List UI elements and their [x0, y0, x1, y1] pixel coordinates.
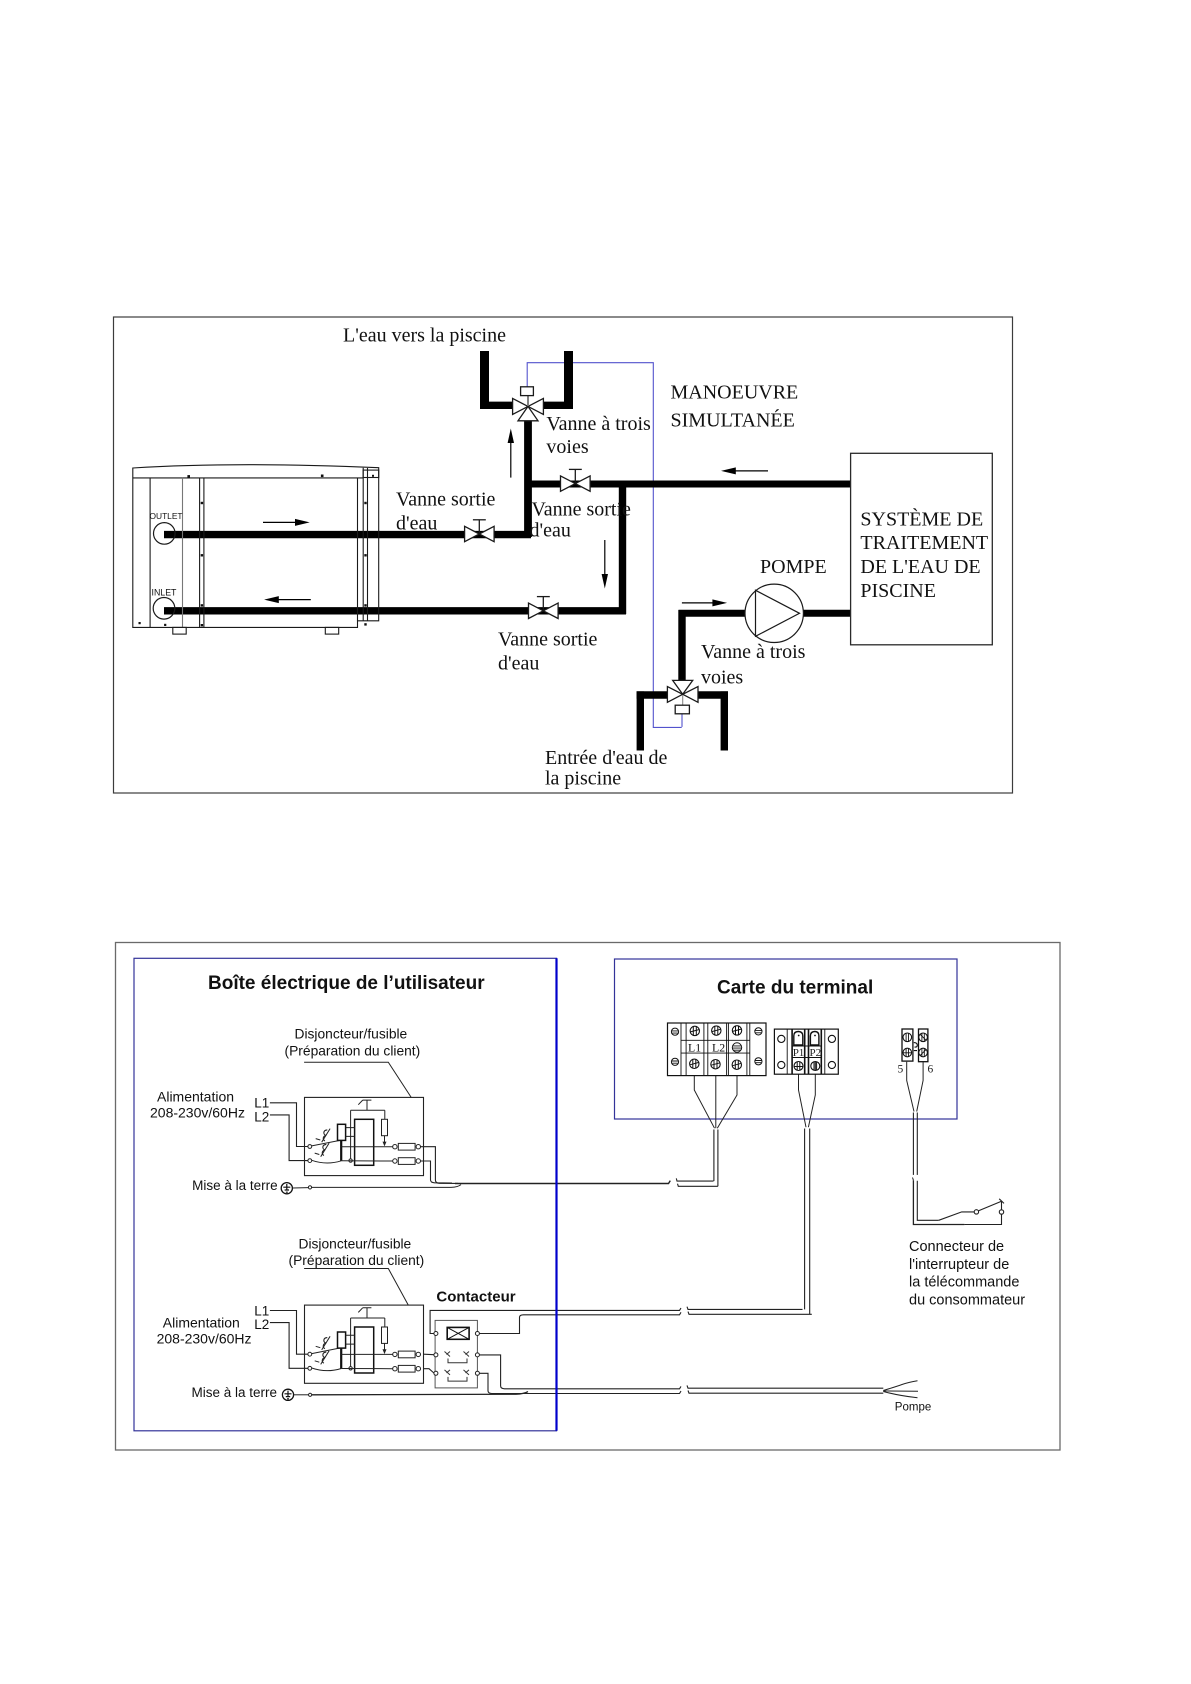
svg-text:Pompe: Pompe	[895, 1401, 931, 1413]
converging wires from TB1	[694, 1069, 714, 1128]
wire L2 to CB2	[270, 1323, 308, 1369]
svg-text:Alimentation: Alimentation	[163, 1315, 240, 1331]
svg-text:L1: L1	[254, 1303, 269, 1318]
control wire (blue) linking both three-way valves	[527, 363, 682, 728]
svg-text:MANOEUVRE: MANOEUVRE	[671, 382, 799, 404]
svg-text:Disjoncteur/fusible: Disjoncteur/fusible	[299, 1236, 412, 1251]
wire: pump inlet pipe	[679, 610, 747, 617]
ground wire long (lower, to pump cable)	[312, 1392, 528, 1395]
wire: pool inlet right downpipe	[721, 691, 728, 750]
leader line to CB1	[304, 1062, 411, 1097]
ground symbol (lower)	[282, 1389, 293, 1400]
wire: OUTLET pipe	[164, 531, 531, 538]
supply cable 1 to terminal card	[455, 1181, 670, 1184]
terminal card (blue frame)	[615, 959, 958, 1119]
coil wire left riser	[430, 1310, 524, 1333]
treatment system box	[851, 453, 993, 645]
valve (inlet) at 543,610.8	[529, 597, 559, 619]
heat pump unit body	[133, 465, 379, 628]
user electric box right edge (bright blue)	[555, 958, 557, 1431]
converging wires from TB2	[799, 1072, 807, 1127]
svg-text:POMPE: POMPE	[760, 556, 827, 578]
wire: vertical pipe under three-way valve V1	[524, 412, 532, 537]
svg-text:L2: L2	[254, 1109, 269, 1124]
riser pair up to terminal block TB1	[713, 1130, 715, 1182]
svg-text:L1: L1	[688, 1040, 701, 1054]
splice pair to card terminals	[676, 1178, 713, 1181]
svg-text:du consommateur: du consommateur	[909, 1293, 1025, 1309]
wire: pool inlet right arm	[697, 691, 728, 698]
ground wire long (upper)	[312, 1185, 461, 1188]
svg-text:Alimentation: Alimentation	[157, 1088, 234, 1104]
flow arrow left (inlet)	[264, 596, 311, 603]
svg-text:P1: P1	[793, 1047, 805, 1059]
CB1 output wire B	[421, 1161, 453, 1183]
svg-text:L'eau vers la piscine: L'eau vers la piscine	[343, 324, 506, 346]
svg-text:INLET: INLET	[152, 588, 178, 598]
pump rotor triangle	[756, 590, 800, 636]
remote switch cable pair down	[912, 1113, 914, 1175]
ground symbol (upper)	[281, 1183, 292, 1194]
CB1 output wire A	[421, 1147, 459, 1184]
port OUTLET circle	[154, 523, 176, 545]
contactor output wire 1	[479, 1355, 516, 1389]
frame top diagram	[114, 317, 1013, 793]
svg-text:Mise à la terre: Mise à la terre	[192, 1178, 278, 1193]
svg-text:Vanne sortie: Vanne sortie	[498, 629, 598, 651]
wire: INLET pipe	[164, 607, 626, 614]
svg-text:d'eau: d'eau	[530, 520, 571, 542]
wire: pool outlet left riser pipe	[480, 351, 489, 405]
svg-text:Vanne à trois: Vanne à trois	[546, 413, 651, 435]
heat pump screws	[139, 475, 375, 627]
spade contacts	[794, 1032, 803, 1046]
svg-text:Vanne à trois: Vanne à trois	[701, 641, 806, 663]
svg-text:Vanne sortie: Vanne sortie	[532, 499, 632, 521]
pump circle	[745, 584, 803, 642]
flow arrow down (x=605)	[602, 540, 608, 589]
wire CB2 fuse1 to contactor	[424, 1353, 434, 1356]
svg-text:Contacteur: Contacteur	[436, 1288, 515, 1305]
svg-text:5: 5	[898, 1064, 904, 1076]
circuit breaker CB2	[305, 1305, 424, 1383]
svg-text:(Préparation du client): (Préparation du client)	[285, 1043, 421, 1058]
svg-text:6: 6	[928, 1064, 934, 1076]
ground wire node (upper)	[293, 1187, 309, 1189]
three-way valve V2 (bottom)	[667, 680, 698, 727]
svg-text:Mise à la terre: Mise à la terre	[192, 1385, 278, 1400]
flow arrow left (to system pipe)	[721, 467, 768, 474]
svg-text:TRAITEMENT: TRAITEMENT	[860, 532, 988, 554]
svg-text:P2: P2	[810, 1047, 822, 1059]
wire: vertical pipe x=622	[619, 481, 626, 614]
svg-text:L1: L1	[254, 1096, 269, 1111]
svg-text:DE L'EAU DE: DE L'EAU DE	[860, 556, 980, 578]
valve (to system) at 575,483.6	[561, 469, 591, 491]
svg-text:OUTLET: OUTLET	[150, 511, 183, 521]
contactor terminals	[434, 1332, 480, 1376]
wire: pool inlet left arm	[637, 691, 669, 698]
remote switch symbol	[939, 1199, 1004, 1225]
contactor box	[435, 1320, 477, 1388]
ground wire node (lower)	[294, 1394, 309, 1396]
bottom screws	[794, 1062, 803, 1071]
flow arrow right (outlet)	[263, 519, 310, 526]
wire: pump outlet pipe	[802, 610, 850, 617]
converging wires from TB3	[907, 1062, 914, 1112]
contactor main contact row 1	[445, 1352, 470, 1363]
wire L1 to CB2	[270, 1311, 308, 1355]
heat pump feet	[173, 627, 186, 634]
contactor coil	[447, 1327, 469, 1339]
svg-text:la piscine: la piscine	[545, 768, 621, 790]
svg-text:208-230v/60Hz: 208-230v/60Hz	[157, 1331, 252, 1347]
wire: pool outlet left bottom arm	[480, 402, 514, 409]
svg-text:d'eau: d'eau	[396, 512, 437, 534]
svg-text:L2: L2	[254, 1317, 269, 1332]
pump cable fan-out	[883, 1381, 917, 1391]
control cable pair to P1P2	[524, 1308, 681, 1310]
svg-text:Vanne sortie: Vanne sortie	[396, 488, 496, 510]
svg-text:Disjoncteur/fusible: Disjoncteur/fusible	[295, 1027, 408, 1042]
leader line to CB2	[304, 1269, 408, 1306]
svg-text:Entrée d'eau de: Entrée d'eau de	[545, 747, 668, 769]
wire: vertical pipe down to three-way valve V2	[678, 610, 685, 683]
corner circles	[778, 1035, 785, 1042]
three-way valve V1 (top)	[513, 365, 544, 421]
svg-text:L2: L2	[712, 1040, 725, 1054]
svg-text:voies: voies	[546, 436, 588, 458]
flow arrow up (riser)	[508, 429, 514, 478]
svg-text:voies: voies	[701, 666, 743, 688]
svg-text:Boîte électrique de l’utilisat: Boîte électrique de l’utilisateur	[208, 973, 485, 994]
wire L1 to CB1	[270, 1103, 308, 1147]
circuit breaker CB1	[305, 1097, 424, 1175]
wire: pool outlet right bottom arm	[542, 402, 573, 409]
pump cable pair	[516, 1386, 681, 1388]
svg-text:208-230v/60Hz: 208-230v/60Hz	[150, 1104, 245, 1120]
label band	[681, 1040, 750, 1053]
svg-text:PISCINE: PISCINE	[860, 580, 936, 602]
heat pump top-right cap step	[363, 470, 379, 477]
wire: horizontal pipe to treatment system	[525, 481, 851, 488]
svg-text:l'interrupteur de: l'interrupteur de	[909, 1257, 1009, 1273]
svg-text:SYSTÈME DE: SYSTÈME DE	[860, 507, 983, 530]
svg-text:d'eau: d'eau	[498, 652, 539, 674]
valve (outlet) at 479,534	[465, 520, 495, 542]
svg-text:SIMULTANÉE: SIMULTANÉE	[671, 408, 795, 431]
contactor main contact row 2	[445, 1370, 470, 1381]
wire CB2 fuse2 to contactor	[424, 1369, 434, 1373]
wire: pool outlet right riser pipe	[564, 351, 573, 405]
port INLET circle	[153, 598, 175, 620]
wire: pool inlet left downpipe	[637, 691, 644, 750]
wire L2 to CB1	[270, 1115, 308, 1161]
svg-text:(Préparation du client): (Préparation du client)	[289, 1253, 425, 1268]
riser pair up to terminal block TB2	[804, 1129, 806, 1310]
frame bottom diagram	[116, 943, 1061, 1451]
svg-text:Carte du terminal: Carte du terminal	[717, 977, 873, 998]
svg-text:Connecteur de: Connecteur de	[909, 1239, 1004, 1255]
flow arrow right (pump inlet)	[682, 599, 727, 606]
contactor output wire 2	[479, 1373, 503, 1393]
svg-text:la télécommande: la télécommande	[909, 1275, 1019, 1291]
coil wire right riser	[479, 1315, 534, 1334]
user electric box (blue frame)	[134, 958, 557, 1431]
